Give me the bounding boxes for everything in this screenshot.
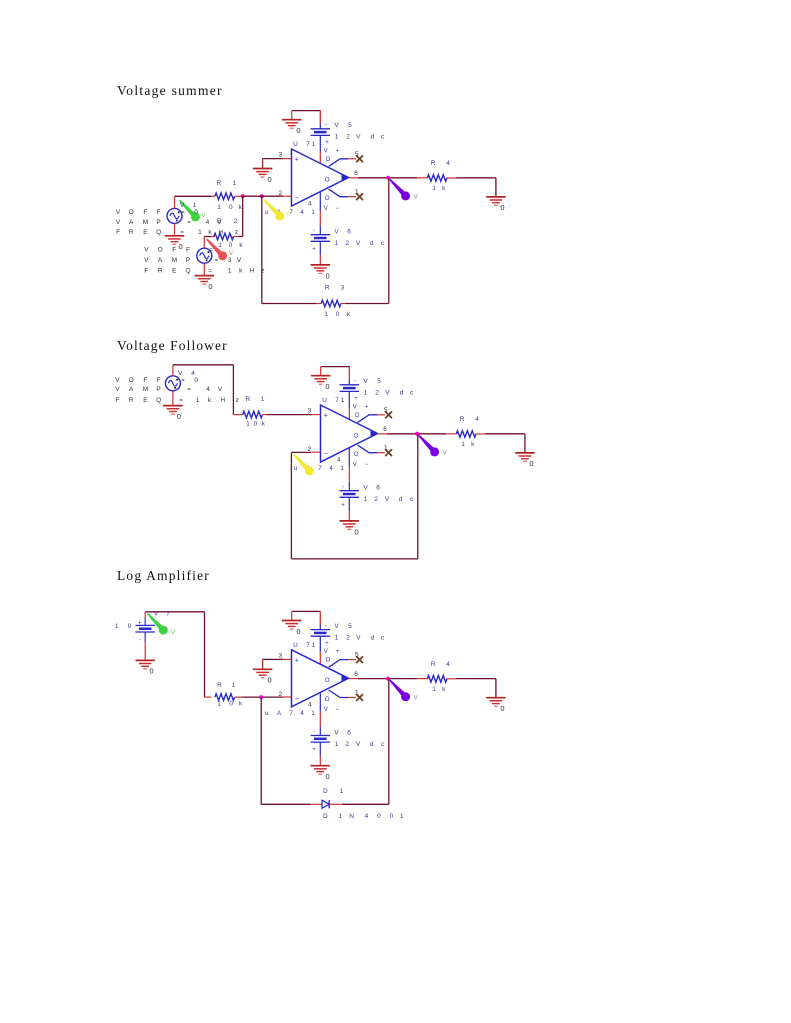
svg-text:1: 1: [311, 710, 315, 717]
svg-text:u: u: [265, 209, 269, 216]
svg-text:=: =: [181, 210, 185, 216]
svg-text:0: 0: [268, 175, 272, 184]
svg-text:V: V: [443, 451, 447, 457]
svg-text:4: 4: [300, 209, 304, 216]
svg-text:V: V: [324, 707, 328, 713]
svg-text:k: k: [442, 185, 446, 192]
svg-text:A: A: [158, 257, 163, 264]
svg-text:0: 0: [128, 623, 132, 630]
svg-text:k: k: [208, 229, 212, 236]
svg-text:Voltage summer: Voltage summer: [117, 83, 223, 98]
svg-text:R: R: [158, 267, 163, 274]
svg-text:2: 2: [374, 496, 378, 503]
svg-text:0: 0: [355, 527, 359, 536]
svg-text:4: 4: [446, 661, 450, 668]
svg-text:D: D: [323, 813, 328, 820]
svg-text:d: d: [371, 634, 375, 641]
svg-text:O: O: [325, 196, 330, 202]
svg-text:0: 0: [229, 700, 233, 707]
svg-text:0: 0: [254, 420, 258, 427]
svg-text:V: V: [116, 209, 121, 216]
svg-text:-: -: [325, 623, 327, 629]
svg-text:V: V: [414, 195, 418, 201]
svg-text:4: 4: [206, 219, 210, 226]
svg-text:F: F: [157, 377, 161, 384]
svg-text:1: 1: [461, 441, 465, 448]
svg-text:d: d: [370, 240, 374, 247]
svg-text:-: -: [139, 638, 141, 644]
svg-text:V: V: [218, 386, 223, 393]
svg-text:M: M: [172, 257, 177, 264]
svg-text:=: =: [209, 248, 213, 254]
svg-text:+: +: [341, 502, 345, 508]
svg-text:0: 0: [194, 209, 198, 216]
svg-text:O: O: [325, 697, 330, 703]
svg-text:0: 0: [268, 676, 272, 685]
svg-text:O: O: [326, 658, 331, 664]
svg-text:A: A: [129, 386, 134, 393]
svg-text:=: =: [187, 387, 191, 393]
svg-text:=: =: [215, 258, 219, 264]
svg-text:F: F: [115, 397, 119, 404]
svg-text:V: V: [334, 229, 339, 236]
svg-text:1: 1: [218, 242, 222, 249]
svg-text:1: 1: [335, 741, 339, 748]
svg-text:H: H: [220, 397, 225, 404]
svg-text:2: 2: [375, 390, 379, 397]
svg-text:c: c: [381, 240, 385, 247]
svg-text:+: +: [325, 641, 329, 647]
svg-text:V: V: [178, 370, 183, 377]
svg-text:R: R: [431, 661, 436, 668]
svg-text:3: 3: [228, 257, 232, 264]
svg-text:+: +: [336, 649, 340, 655]
svg-text:4: 4: [475, 416, 479, 423]
svg-text:-: -: [342, 484, 344, 490]
svg-text:-: -: [325, 122, 327, 128]
svg-text:O: O: [158, 247, 163, 254]
svg-text:V: V: [356, 134, 361, 141]
svg-text:k: k: [239, 267, 243, 274]
svg-text:Log Amplifier: Log Amplifier: [117, 568, 210, 583]
svg-text:1: 1: [312, 643, 316, 649]
svg-text:d: d: [399, 496, 403, 503]
svg-text:E: E: [143, 397, 148, 404]
svg-text:2: 2: [345, 741, 349, 748]
svg-text:6: 6: [354, 671, 358, 678]
svg-text:V: V: [353, 404, 357, 410]
svg-text:V: V: [154, 611, 159, 618]
svg-text:1: 1: [198, 229, 202, 236]
svg-text:+: +: [365, 404, 369, 410]
svg-text:V: V: [285, 212, 289, 218]
svg-text:R: R: [460, 416, 465, 423]
svg-text:O: O: [326, 157, 331, 163]
svg-text:E: E: [143, 229, 148, 236]
svg-text:0: 0: [229, 242, 233, 249]
svg-text:+: +: [295, 157, 299, 164]
svg-text:R: R: [325, 284, 330, 291]
svg-text:A: A: [129, 219, 134, 226]
svg-text:4: 4: [206, 386, 210, 393]
svg-text:1: 1: [217, 204, 221, 211]
svg-text:V: V: [324, 206, 328, 212]
svg-text:R: R: [216, 180, 221, 187]
svg-text:3: 3: [341, 284, 345, 291]
svg-text:z: z: [261, 267, 264, 274]
svg-text:0: 0: [326, 772, 330, 781]
svg-text:V: V: [334, 623, 339, 630]
svg-text:+: +: [295, 657, 299, 664]
svg-text:c: c: [381, 741, 385, 748]
svg-text:−: −: [295, 695, 299, 702]
svg-text:0: 0: [296, 126, 300, 135]
svg-text:1: 1: [338, 813, 342, 820]
svg-text:P: P: [156, 219, 160, 226]
svg-text:1: 1: [340, 788, 344, 795]
svg-text:Q: Q: [156, 397, 161, 404]
svg-text:0: 0: [336, 311, 340, 318]
svg-text:0: 0: [229, 204, 233, 211]
svg-text:Q: Q: [156, 229, 161, 236]
svg-text:4: 4: [308, 202, 312, 208]
svg-text:1: 1: [335, 634, 339, 641]
svg-text:+: +: [312, 246, 316, 252]
svg-text:k: k: [442, 686, 446, 693]
svg-text:1: 1: [115, 623, 119, 630]
svg-text:O: O: [325, 678, 330, 684]
svg-text:-: -: [354, 378, 356, 384]
svg-text:+: +: [354, 396, 358, 402]
svg-text:0: 0: [177, 412, 181, 421]
svg-text:7: 7: [289, 710, 293, 717]
svg-text:Q: Q: [185, 267, 190, 274]
svg-text:2: 2: [233, 218, 237, 225]
svg-text:V: V: [385, 496, 390, 503]
svg-text:0: 0: [500, 203, 504, 212]
svg-text:=: =: [179, 398, 183, 404]
svg-text:7: 7: [335, 397, 339, 404]
svg-text:4: 4: [365, 813, 369, 820]
svg-text:1: 1: [400, 813, 404, 820]
svg-text:0: 0: [529, 459, 533, 468]
svg-text:1: 1: [432, 686, 436, 693]
svg-text:4: 4: [329, 465, 333, 472]
svg-text:7: 7: [318, 465, 322, 472]
svg-text:2: 2: [346, 634, 350, 641]
svg-text:5: 5: [355, 151, 359, 158]
svg-text:V: V: [217, 219, 222, 226]
svg-text:F: F: [172, 247, 176, 254]
svg-text:c: c: [381, 134, 385, 141]
svg-text:0: 0: [149, 667, 153, 676]
svg-text:−: −: [336, 707, 340, 713]
svg-text:5: 5: [384, 407, 388, 414]
svg-text:0: 0: [296, 627, 300, 636]
svg-text:3: 3: [278, 652, 282, 659]
svg-text:+: +: [325, 140, 329, 146]
svg-text:V: V: [363, 378, 368, 385]
svg-text:V: V: [171, 630, 175, 636]
svg-text:1: 1: [217, 700, 221, 707]
svg-text:E: E: [172, 267, 177, 274]
svg-text:F: F: [143, 209, 147, 216]
svg-text:O: O: [129, 209, 134, 216]
svg-text:O: O: [355, 413, 360, 419]
svg-text:V: V: [353, 462, 357, 468]
svg-text:−: −: [336, 206, 340, 212]
svg-text:1: 1: [232, 682, 236, 689]
svg-text:1: 1: [355, 689, 359, 696]
svg-text:5: 5: [377, 378, 381, 385]
svg-text:D: D: [323, 788, 328, 795]
svg-text:0: 0: [377, 813, 381, 820]
svg-text:F: F: [116, 229, 120, 236]
svg-text:V: V: [385, 390, 390, 397]
svg-text:F: F: [186, 247, 190, 254]
svg-text:6: 6: [354, 170, 358, 177]
svg-text:5: 5: [355, 652, 359, 659]
svg-text:=: =: [187, 220, 191, 226]
svg-text:+: +: [336, 148, 340, 154]
svg-text:+: +: [312, 747, 316, 753]
svg-text:6: 6: [347, 729, 351, 736]
svg-text:R: R: [129, 397, 134, 404]
svg-text:+: +: [138, 620, 142, 626]
svg-text:4: 4: [300, 710, 304, 717]
svg-text:d: d: [370, 741, 374, 748]
svg-text:4: 4: [446, 160, 450, 167]
svg-text:V: V: [115, 386, 120, 393]
svg-text:P: P: [186, 257, 190, 264]
svg-text:V: V: [237, 257, 242, 264]
svg-text:U: U: [322, 397, 327, 404]
svg-text:4: 4: [191, 370, 195, 377]
svg-text:F: F: [144, 267, 148, 274]
svg-text:1: 1: [335, 240, 339, 247]
svg-text:3: 3: [278, 152, 282, 159]
svg-text:5: 5: [348, 122, 352, 129]
svg-text:1: 1: [324, 311, 328, 318]
svg-text:z: z: [235, 229, 238, 236]
svg-text:u: u: [294, 465, 298, 472]
svg-text:V: V: [180, 202, 185, 209]
svg-text:−: −: [365, 462, 369, 468]
svg-text:6: 6: [376, 485, 380, 492]
svg-text:1: 1: [233, 180, 237, 187]
svg-text:1: 1: [228, 267, 232, 274]
svg-text:1: 1: [246, 420, 250, 427]
svg-text:1: 1: [311, 209, 315, 216]
svg-text:z: z: [236, 397, 239, 404]
svg-text:O: O: [354, 433, 359, 439]
svg-text:1: 1: [261, 396, 265, 403]
svg-text:k: k: [471, 441, 475, 448]
svg-text:1: 1: [340, 465, 344, 472]
svg-text:k: k: [347, 311, 351, 318]
svg-text:5: 5: [348, 623, 352, 630]
svg-text:V: V: [334, 122, 339, 129]
svg-text:V: V: [414, 695, 418, 701]
svg-text:A: A: [277, 710, 282, 717]
svg-text:-: -: [313, 729, 315, 735]
svg-text:1: 1: [341, 398, 345, 404]
svg-text:k: k: [208, 397, 212, 404]
svg-text:7: 7: [306, 141, 310, 148]
svg-text:F: F: [157, 209, 161, 216]
svg-text:0: 0: [325, 382, 329, 391]
svg-text:V: V: [115, 377, 120, 384]
svg-text:H: H: [218, 229, 223, 236]
svg-text:1: 1: [364, 390, 368, 397]
svg-text:0: 0: [194, 377, 198, 384]
svg-text:V: V: [356, 634, 361, 641]
svg-text:2: 2: [346, 134, 350, 141]
svg-text:3: 3: [307, 408, 311, 415]
svg-text:c: c: [410, 496, 414, 503]
svg-text:V: V: [144, 247, 149, 254]
svg-text:1: 1: [196, 397, 200, 404]
svg-text:1: 1: [312, 142, 316, 148]
svg-text:=: =: [181, 378, 185, 384]
svg-text:d: d: [371, 134, 375, 141]
svg-text:M: M: [143, 219, 148, 226]
svg-text:1: 1: [335, 134, 339, 141]
svg-text:k: k: [262, 420, 266, 427]
svg-text:0: 0: [390, 813, 394, 820]
svg-text:c: c: [410, 390, 414, 397]
svg-text:−: −: [295, 195, 299, 202]
svg-text:4: 4: [337, 458, 341, 464]
svg-text:M: M: [143, 386, 148, 393]
svg-text:c: c: [381, 634, 385, 641]
svg-text:6: 6: [383, 426, 387, 433]
svg-text:O: O: [354, 452, 359, 458]
svg-text:7: 7: [289, 209, 293, 216]
svg-text:U: U: [293, 642, 298, 649]
svg-text:6: 6: [347, 229, 351, 236]
svg-text:R: R: [431, 160, 436, 167]
svg-text:−: −: [324, 451, 328, 458]
svg-text:u: u: [265, 710, 269, 717]
svg-text:V: V: [356, 240, 361, 247]
svg-text:O: O: [129, 377, 134, 384]
svg-text:N: N: [349, 813, 354, 820]
svg-text:=: =: [180, 230, 184, 236]
svg-text:+: +: [324, 413, 328, 420]
svg-text:1: 1: [355, 189, 359, 196]
svg-text:0: 0: [208, 282, 212, 291]
svg-text:P: P: [156, 386, 160, 393]
svg-text:V: V: [324, 148, 328, 154]
svg-text:0: 0: [179, 242, 183, 251]
svg-text:0: 0: [326, 271, 330, 280]
svg-text:Voltage Follower: Voltage Follower: [117, 338, 228, 353]
svg-text:1: 1: [364, 496, 368, 503]
svg-text:U: U: [293, 141, 298, 148]
svg-text:d: d: [400, 390, 404, 397]
svg-text:=: =: [208, 268, 212, 274]
svg-text:2: 2: [345, 240, 349, 247]
svg-text:H: H: [249, 267, 254, 274]
svg-text:-: -: [313, 228, 315, 234]
svg-text:4: 4: [308, 702, 312, 708]
svg-text:O: O: [325, 177, 330, 183]
svg-text:F: F: [143, 377, 147, 384]
svg-text:V: V: [334, 729, 339, 736]
svg-text:7: 7: [166, 611, 170, 618]
svg-text:R: R: [129, 229, 134, 236]
svg-text:V: V: [356, 741, 361, 748]
svg-text:V: V: [116, 219, 121, 226]
svg-text:7: 7: [306, 642, 310, 649]
svg-text:0: 0: [500, 704, 504, 713]
svg-text:V: V: [363, 485, 368, 492]
svg-text:k: k: [239, 700, 243, 707]
svg-text:R: R: [217, 682, 222, 689]
svg-text:V: V: [144, 257, 149, 264]
svg-text:V: V: [324, 649, 328, 655]
svg-text:1: 1: [432, 185, 436, 192]
svg-text:1: 1: [384, 445, 388, 452]
svg-text:R: R: [246, 396, 251, 403]
svg-text:k: k: [239, 242, 243, 249]
